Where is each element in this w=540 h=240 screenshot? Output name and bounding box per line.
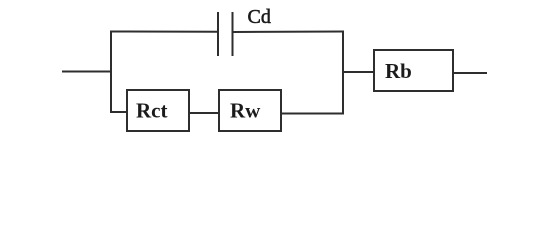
wire bottom rail left [110,111,127,113]
svg-text:Rb: Rb [385,59,412,83]
resistor Rct [127,90,189,131]
capacitor Cd [218,12,233,56]
wire top rail right [233,31,345,34]
resistor Rw [219,90,281,131]
wire top rail left [110,31,218,33]
wire to Rb [343,71,374,73]
node right junction [342,31,344,115]
resistor Rb [374,50,453,91]
wire left lead [62,71,111,73]
svg-text:Rct: Rct [136,99,167,123]
svg-text:Rw: Rw [230,99,261,123]
node left junction [110,31,112,113]
wire Rct to Rw [189,112,219,114]
wire right lead [453,72,487,74]
wire Rw to right junction [281,113,344,115]
svg-text:Cd: Cd [248,6,271,28]
